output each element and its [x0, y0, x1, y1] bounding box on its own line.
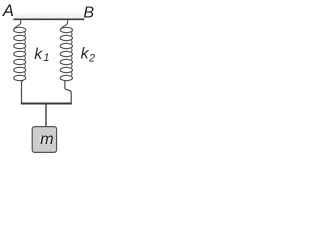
wire left tail: [22, 80, 24, 103]
svg-text:m: m: [40, 131, 53, 148]
mass m block: [32, 127, 56, 153]
spring k2: [60, 19, 72, 80]
svg-text:k: k: [34, 46, 43, 63]
ceiling line: [13, 18, 84, 20]
svg-text:1: 1: [43, 52, 49, 64]
svg-text:A: A: [2, 2, 14, 20]
svg-text:B: B: [83, 4, 94, 21]
svg-text:2: 2: [88, 52, 95, 64]
stem wire: [45, 104, 47, 128]
label k2: [81, 46, 96, 65]
wire right tail: [65, 80, 71, 103]
bar: [21, 103, 72, 105]
spring k1: [14, 19, 26, 80]
ceiling hatch: [14, 13, 85, 18]
label k1: [34, 46, 49, 64]
